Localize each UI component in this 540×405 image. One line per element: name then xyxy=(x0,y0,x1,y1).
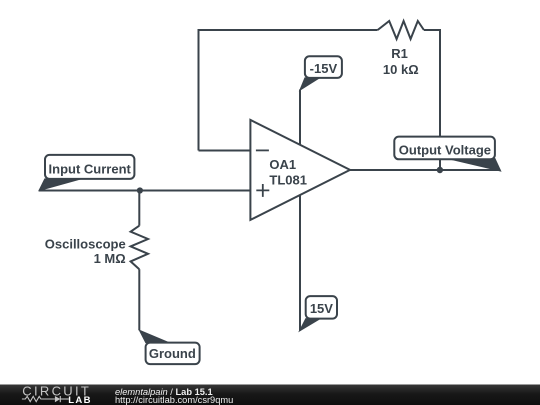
svg-text:10 kΩ: 10 kΩ xyxy=(383,62,419,77)
svg-text:1 MΩ: 1 MΩ xyxy=(94,251,126,266)
flag pointer Ground xyxy=(139,330,169,342)
flag pointer -15V xyxy=(300,78,320,90)
flag 15V xyxy=(306,296,337,319)
flag Input Current xyxy=(45,155,134,179)
flag pointer Input Current xyxy=(39,179,81,191)
wire output xyxy=(350,169,501,171)
svg-text:Input Current: Input Current xyxy=(49,161,132,176)
svg-text:http://circuitlab.com/csr9qmu: http://circuitlab.com/csr9qmu xyxy=(115,395,233,405)
svg-text:TL081: TL081 xyxy=(269,172,307,187)
flag pointer 15V xyxy=(299,319,320,332)
op-amp OA1 triangle xyxy=(250,120,350,220)
node junction dot input xyxy=(137,187,143,193)
flag pointer Output Voltage xyxy=(448,159,501,172)
logo resistor zigzag and diode xyxy=(22,396,69,402)
wire feedback left vertical and top horizontal xyxy=(199,30,378,151)
svg-text:Output Voltage: Output Voltage xyxy=(399,143,491,158)
svg-text:Ground: Ground xyxy=(149,346,196,361)
wire junction to oscilloscope resistor xyxy=(138,191,140,226)
flag Ground xyxy=(146,343,200,365)
wire to ground flag xyxy=(138,269,140,330)
resistor R1 xyxy=(378,21,424,39)
svg-text:-15V: -15V xyxy=(310,61,338,76)
svg-text:15V: 15V xyxy=(310,301,333,316)
wire -15V supply xyxy=(299,90,301,145)
resistor Oscilloscope 1 MOhm xyxy=(131,226,148,270)
wire +15V supply xyxy=(299,195,301,331)
svg-text:Oscilloscope: Oscilloscope xyxy=(45,237,126,252)
wire R1 right lead and right vertical xyxy=(424,30,440,170)
flag Output Voltage xyxy=(394,137,495,160)
svg-text:OA1: OA1 xyxy=(269,157,296,172)
svg-text:R1: R1 xyxy=(391,46,408,61)
wire noninverting input from Input Current xyxy=(39,190,251,192)
op-amp OA1 inverting input minus symbol xyxy=(256,149,269,151)
node junction dot output xyxy=(437,167,443,173)
op-amp OA1 noninverting input plus symbol xyxy=(256,184,269,197)
wire inverting input xyxy=(199,150,251,152)
flag -15V xyxy=(305,56,342,78)
svg-text:LAB: LAB xyxy=(68,395,92,405)
